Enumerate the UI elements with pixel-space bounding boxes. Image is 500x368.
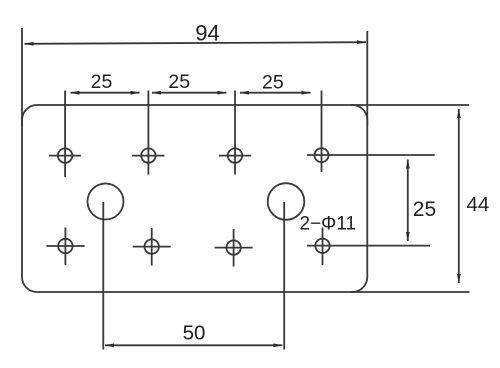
dimension line 44 vertical right <box>457 109 461 283</box>
label 25 first <box>91 71 113 93</box>
extension line column 1 <box>64 91 66 178</box>
extension line left (94 dim) <box>21 28 23 126</box>
svg-text:50: 50 <box>183 321 206 344</box>
label 25 vertical <box>413 198 436 221</box>
extension line column 3 <box>234 91 236 175</box>
svg-text:25: 25 <box>168 71 190 93</box>
dimension line 25 first <box>71 91 140 95</box>
label 25 third <box>262 72 284 94</box>
extension line from circle 1 (50 dim) <box>102 202 104 350</box>
dimension line 50 bottom <box>105 343 282 347</box>
big hole circle 1 <box>88 184 124 220</box>
dimension line 25 second <box>152 91 226 95</box>
extension line column 2 <box>147 91 149 175</box>
hole top row 1 <box>49 148 81 162</box>
svg-text:25: 25 <box>91 71 113 93</box>
hole top row 4 <box>315 148 329 162</box>
extension line bottom (25 vertical dim) through bottom hole 4 <box>307 245 430 247</box>
hole bottom row 4 <box>315 228 329 266</box>
big hole circle 2 <box>268 183 305 220</box>
hole top row 2 <box>132 148 164 162</box>
hole bottom row 2 <box>133 228 171 266</box>
label 94 <box>195 21 219 46</box>
dimension line 25 third <box>240 91 311 95</box>
dimension line 94 <box>25 40 367 45</box>
svg-text:2−Φ11: 2−Φ11 <box>300 214 357 235</box>
svg-text:44: 44 <box>467 193 490 216</box>
extension line top-right (44 dim) <box>350 104 469 106</box>
svg-text:25: 25 <box>262 72 284 94</box>
label 44 <box>467 193 490 216</box>
hole top row 3 <box>219 148 251 162</box>
extension line column 4 <box>321 91 323 173</box>
extension line bottom-right (44 dim) <box>350 291 470 293</box>
svg-text:25: 25 <box>413 198 436 221</box>
label 25 second <box>168 71 190 93</box>
extension line right (94 dim) <box>366 31 368 126</box>
label 2-phi-11 <box>300 214 357 235</box>
label 50 <box>183 321 206 344</box>
svg-text:94: 94 <box>195 21 219 46</box>
extension line from circle 2 (50 dim) <box>283 202 285 350</box>
plate outline <box>22 105 367 292</box>
hole bottom row 1 <box>46 228 84 266</box>
hole bottom row 3 <box>215 229 253 267</box>
extension line top (25 vertical dim) through hole 4 <box>307 154 435 156</box>
dimension line 25 vertical right <box>406 160 410 242</box>
